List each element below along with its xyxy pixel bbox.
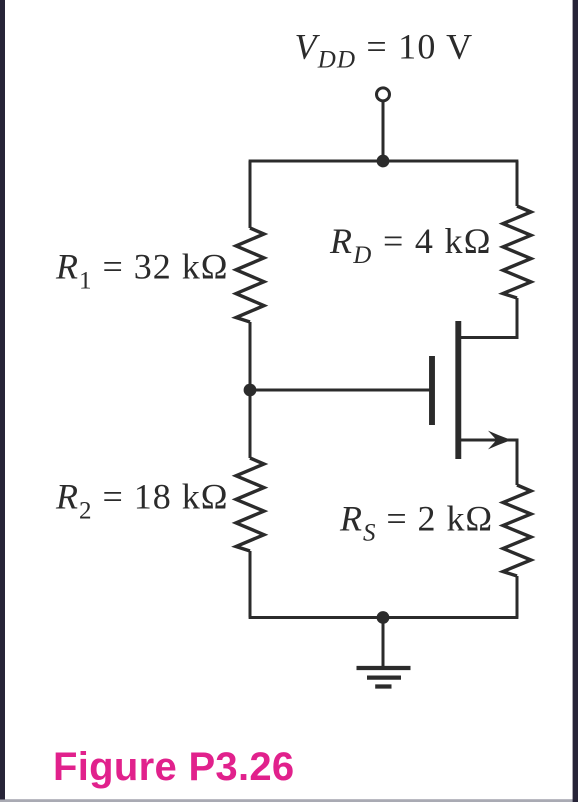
node dot at VDD junction — [377, 155, 390, 168]
wire source stub to RS top — [461, 440, 517, 485]
ground bar 2 — [367, 675, 401, 679]
transistor Q1 source arrow — [488, 431, 512, 450]
resistor R1 (32k) zigzag — [236, 228, 264, 322]
wire RD bottom to drain stub — [460, 298, 517, 338]
wire ground stem — [382, 618, 385, 667]
wire bottom rail — [249, 616, 519, 619]
svg-text:Figure P3.26: Figure P3.26 — [53, 745, 294, 789]
node dot at gate junction — [244, 384, 257, 397]
wire top rail — [249, 160, 519, 163]
wire VDD stem — [382, 100, 385, 161]
wire right rail (top to RD) — [516, 161, 519, 206]
resistor RS (2k) zigzag — [503, 485, 531, 576]
node dot at ground junction — [377, 611, 390, 624]
bottom gray rule — [0, 799, 578, 802]
transistor Q1 channel bar — [455, 321, 461, 459]
left page border — [0, 0, 5, 800]
ground bar 1 — [357, 666, 411, 670]
wire RS bottom to bottom rail — [516, 576, 519, 618]
wire left rail upper (top to R1) — [249, 161, 252, 228]
resistor R2 (18k) zigzag — [236, 458, 264, 551]
wire left rail lower (R2 to bottom) — [249, 551, 252, 618]
wire left rail middle (R1 to R2) — [249, 322, 252, 458]
transistor Q1 gate bar — [429, 356, 435, 425]
ground bar 3 — [375, 684, 391, 688]
VDD terminal circle — [377, 88, 390, 101]
wire gate lead — [250, 389, 430, 392]
resistor RD (4k) zigzag — [503, 206, 531, 298]
right page border — [573, 0, 578, 802]
